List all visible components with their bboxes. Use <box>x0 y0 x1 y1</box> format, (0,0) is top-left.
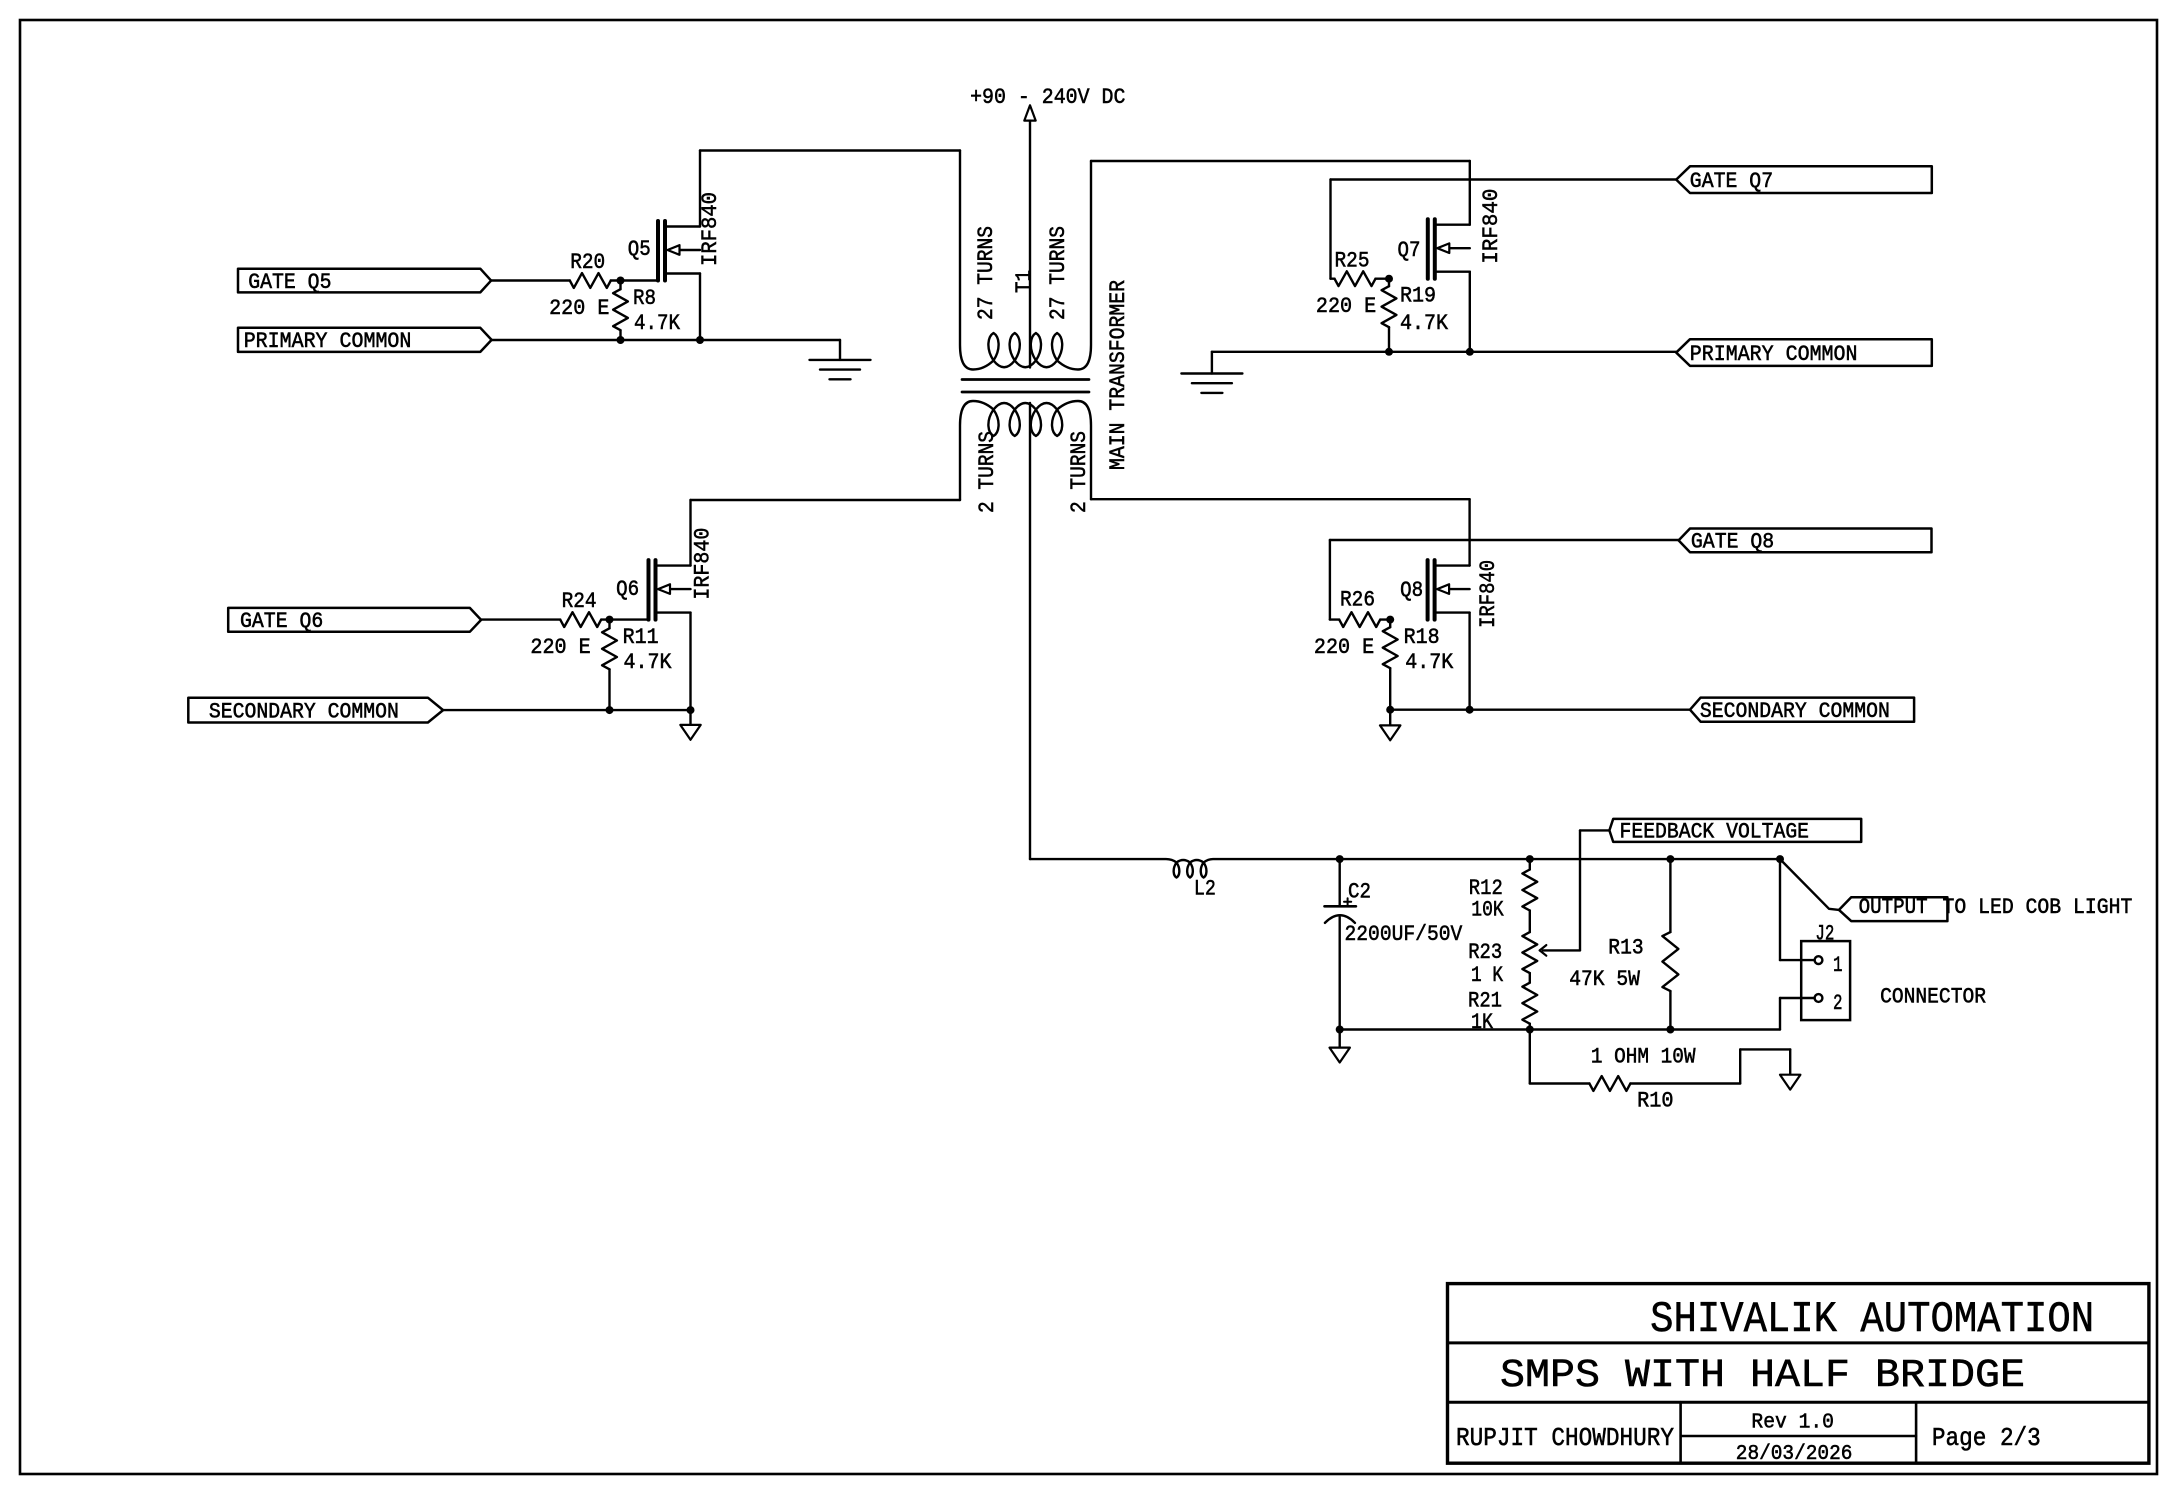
svg-text:2200UF/50V: 2200UF/50V <box>1345 922 1464 947</box>
svg-text:27 TURNS: 27 TURNS <box>974 226 999 320</box>
svg-text:220 E: 220 E <box>1316 294 1376 319</box>
svg-text:R25: R25 <box>1335 249 1370 274</box>
svg-text:PRIMARY COMMON: PRIMARY COMMON <box>244 329 412 354</box>
svg-text:Q5: Q5 <box>628 237 651 262</box>
svg-text:R26: R26 <box>1340 588 1375 613</box>
svg-text:Q6: Q6 <box>616 577 639 602</box>
svg-text:+90 - 240V DC: +90 - 240V DC <box>970 85 1125 110</box>
svg-text:R11: R11 <box>623 625 659 650</box>
svg-text:RUPJIT CHOWDHURY: RUPJIT CHOWDHURY <box>1456 1423 1674 1453</box>
svg-text:1: 1 <box>1833 953 1843 978</box>
svg-text:GATE Q5: GATE Q5 <box>248 270 331 295</box>
svg-text:J2: J2 <box>1815 922 1834 947</box>
svg-text:2 TURNS: 2 TURNS <box>1067 431 1092 513</box>
svg-text:47K 5W: 47K 5W <box>1569 967 1640 992</box>
svg-text:IRF840: IRF840 <box>1476 560 1501 628</box>
svg-text:R19: R19 <box>1400 284 1436 309</box>
svg-text:MAIN TRANSFORMER: MAIN TRANSFORMER <box>1106 280 1131 470</box>
svg-text:2: 2 <box>1833 991 1843 1016</box>
svg-text:R24: R24 <box>562 589 597 614</box>
svg-text:SHIVALIK AUTOMATION: SHIVALIK AUTOMATION <box>1650 1295 2094 1345</box>
svg-text:4.7K: 4.7K <box>1400 311 1449 336</box>
svg-text:SECONDARY COMMON: SECONDARY COMMON <box>209 699 399 724</box>
svg-text:220 E: 220 E <box>530 635 590 660</box>
svg-text:CONNECTOR: CONNECTOR <box>1880 985 1986 1010</box>
svg-text:R8: R8 <box>633 286 656 311</box>
svg-text:TO LED COB LIGHT: TO LED COB LIGHT <box>1943 895 2133 920</box>
svg-text:28/03/2026: 28/03/2026 <box>1736 1442 1853 1466</box>
svg-text:4.7K: 4.7K <box>624 650 673 675</box>
svg-text:FEEDBACK VOLTAGE: FEEDBACK VOLTAGE <box>1620 820 1810 845</box>
svg-text:2 TURNS: 2 TURNS <box>975 431 1000 513</box>
svg-text:220 E: 220 E <box>549 296 609 321</box>
svg-text:4.7K: 4.7K <box>634 311 681 336</box>
svg-text:R10: R10 <box>1637 1089 1673 1114</box>
svg-text:1 OHM 10W: 1 OHM 10W <box>1591 1045 1696 1070</box>
svg-text:R20: R20 <box>570 250 605 275</box>
svg-text:SMPS WITH HALF BRIDGE: SMPS WITH HALF BRIDGE <box>1500 1354 2025 1399</box>
svg-text:SECONDARY COMMON: SECONDARY COMMON <box>1700 699 1890 724</box>
svg-text:Q8: Q8 <box>1400 578 1423 603</box>
svg-text:27 TURNS: 27 TURNS <box>1046 226 1071 320</box>
svg-text:10K: 10K <box>1471 897 1504 922</box>
svg-text:IRF840: IRF840 <box>691 528 716 600</box>
svg-text:R23: R23 <box>1468 940 1502 965</box>
svg-text:R13: R13 <box>1608 936 1643 961</box>
svg-text:IRF840: IRF840 <box>1479 189 1504 264</box>
svg-text:PRIMARY COMMON: PRIMARY COMMON <box>1690 342 1858 367</box>
svg-text:GATE Q7: GATE Q7 <box>1690 169 1773 194</box>
svg-text:L2: L2 <box>1194 877 1216 902</box>
svg-text:C2: C2 <box>1348 880 1371 905</box>
svg-text:OUTPUT: OUTPUT <box>1859 895 1928 920</box>
svg-text:220 E: 220 E <box>1314 635 1374 660</box>
svg-text:R18: R18 <box>1404 625 1440 650</box>
svg-text:IRF840: IRF840 <box>698 192 723 266</box>
svg-text:Page 2/3: Page 2/3 <box>1932 1423 2041 1453</box>
svg-text:1K: 1K <box>1471 1010 1494 1035</box>
svg-text:4.7K: 4.7K <box>1405 650 1454 675</box>
svg-text:Rev 1.0: Rev 1.0 <box>1751 1410 1834 1434</box>
svg-text:1 K: 1 K <box>1471 963 1504 988</box>
svg-text:T1: T1 <box>1012 270 1037 293</box>
svg-text:GATE Q8: GATE Q8 <box>1691 530 1774 555</box>
svg-text:Q7: Q7 <box>1398 238 1421 263</box>
svg-text:GATE Q6: GATE Q6 <box>240 609 323 634</box>
